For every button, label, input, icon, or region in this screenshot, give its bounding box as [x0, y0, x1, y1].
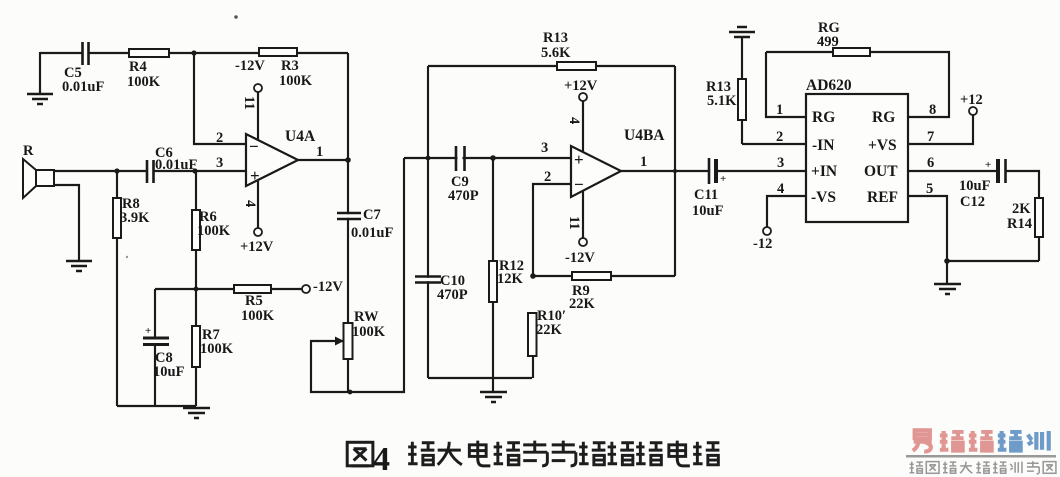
svg-text:-VS: -VS [811, 189, 836, 206]
svg-text:C11: C11 [694, 187, 718, 203]
svg-text:−: − [574, 175, 584, 194]
svg-text:12K: 12K [497, 271, 524, 287]
svg-text:−: − [249, 137, 259, 156]
svg-text:3: 3 [777, 155, 784, 171]
svg-text:C12: C12 [960, 194, 985, 210]
svg-text:5.6K: 5.6K [541, 45, 571, 61]
svg-text:22K: 22K [536, 322, 563, 338]
svg-text:AD620: AD620 [806, 77, 852, 94]
svg-text:11: 11 [241, 96, 257, 110]
svg-text:+12V: +12V [240, 239, 274, 255]
svg-text:1: 1 [776, 102, 783, 118]
svg-text:+: + [145, 325, 151, 337]
svg-text:+: + [720, 173, 726, 185]
svg-text:22K: 22K [569, 296, 596, 312]
svg-text:470P: 470P [437, 287, 468, 303]
svg-text:6: 6 [927, 155, 934, 171]
svg-text:5: 5 [926, 181, 933, 197]
svg-text:3.9K: 3.9K [120, 210, 150, 226]
svg-text:2: 2 [776, 129, 783, 145]
svg-text:R: R [23, 143, 34, 159]
svg-text:100K: 100K [241, 308, 275, 324]
svg-text:+: + [574, 150, 584, 169]
svg-text:R4: R4 [129, 59, 147, 75]
svg-text:470P: 470P [448, 188, 479, 204]
svg-text:7: 7 [927, 129, 934, 145]
svg-text:100K: 100K [279, 73, 313, 89]
svg-text:4: 4 [566, 117, 582, 124]
svg-text:-12V: -12V [235, 58, 265, 74]
svg-text:4: 4 [242, 200, 258, 207]
svg-text:-12V: -12V [565, 250, 595, 266]
svg-text:1: 1 [316, 144, 323, 160]
svg-text:5.1K: 5.1K [707, 93, 737, 109]
svg-text:3: 3 [216, 155, 223, 171]
svg-text:R3: R3 [281, 58, 299, 74]
svg-text:3: 3 [541, 140, 548, 156]
svg-text:0.01uF: 0.01uF [351, 225, 393, 241]
svg-text:100K: 100K [200, 341, 234, 357]
svg-text:10uF: 10uF [959, 178, 991, 194]
svg-text:2: 2 [216, 130, 223, 146]
svg-text:10uF: 10uF [692, 203, 724, 219]
svg-text:+: + [985, 159, 991, 171]
svg-text:100K: 100K [352, 324, 386, 340]
svg-text:-12: -12 [753, 236, 772, 252]
svg-text:R13: R13 [543, 30, 568, 46]
svg-text:+IN: +IN [811, 163, 837, 180]
svg-text:0.01uF: 0.01uF [62, 79, 104, 95]
svg-text:+VS: +VS [868, 137, 897, 154]
svg-text:4: 4 [777, 181, 784, 197]
svg-text:R14: R14 [1007, 216, 1032, 232]
svg-text:C7: C7 [363, 207, 381, 223]
svg-text:+: + [250, 166, 260, 185]
svg-text:RG: RG [812, 109, 835, 126]
svg-text:11: 11 [566, 216, 582, 230]
svg-text:U4BA: U4BA [624, 127, 665, 144]
svg-text:1: 1 [640, 154, 647, 170]
svg-text:R5: R5 [245, 293, 263, 309]
svg-text:-IN: -IN [812, 137, 834, 154]
svg-text:0.01uF: 0.01uF [155, 157, 197, 173]
svg-text:10uF: 10uF [153, 364, 185, 380]
svg-text:100K: 100K [127, 74, 161, 90]
svg-text:RG: RG [872, 109, 895, 126]
svg-text:4: 4 [373, 441, 390, 477]
svg-text:U4A: U4A [285, 128, 316, 145]
svg-text:2: 2 [544, 169, 551, 185]
svg-text:OUT: OUT [864, 163, 898, 180]
svg-text:2K: 2K [1012, 201, 1031, 217]
svg-text:-12V: -12V [313, 279, 343, 295]
svg-text:REF: REF [867, 189, 898, 206]
svg-text:+12V: +12V [564, 78, 598, 94]
svg-text:100K: 100K [197, 223, 231, 239]
svg-text:8: 8 [929, 102, 936, 118]
svg-text:RW: RW [354, 309, 379, 325]
svg-text:+12: +12 [960, 92, 983, 108]
svg-text:499: 499 [817, 34, 839, 50]
